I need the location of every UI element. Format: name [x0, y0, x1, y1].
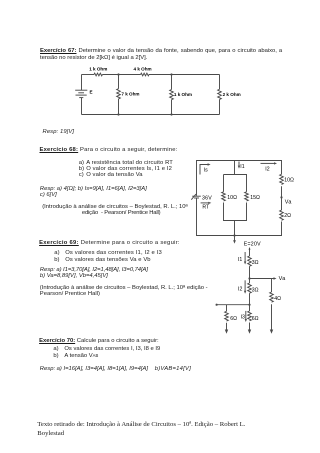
node A (junction dot, top of 7k branch) — [117, 73, 119, 75]
arrow I3 (current into bottom R 6 Ohm) — [241, 311, 247, 322]
svg-text:2 k Ohm: 2 k Ohm — [223, 92, 241, 97]
resistor 4 k Ohm (series, top rail) — [134, 66, 152, 76]
arrow Is (source current, top-left corner) — [200, 163, 211, 174]
svg-text:Is: Is — [204, 168, 208, 174]
node Va (tap with arrow and label) — [248, 276, 286, 282]
battery 36V (source, left rail) — [191, 194, 212, 201]
node Vb (junction dot and tap wire to the left) — [216, 304, 251, 306]
svg-text:3Ω: 3Ω — [252, 260, 259, 266]
wire: top rail from R 4k to right corner — [149, 74, 220, 76]
svg-text:10Ω: 10Ω — [284, 178, 294, 184]
svg-text:Va: Va — [285, 200, 293, 206]
wire: top rail between R 1k and node A — [102, 74, 140, 76]
node D (junction dot, bottom of middle 1k branch) — [170, 113, 172, 115]
svg-text:I2: I2 — [238, 287, 242, 293]
wire: bottom tap of box through bottom rail with return arrow — [233, 221, 236, 244]
resistor 2 k Ohm (right-most branch) — [218, 75, 241, 115]
resistor 15 Ohm (right element inside box) — [245, 192, 260, 201]
arrow I2 (current into middle R 3 Ohm) — [238, 280, 246, 294]
svg-text:4 k Ohm: 4 k Ohm — [134, 66, 152, 71]
resistor 3 Ohm (top series, main branch) — [248, 256, 259, 266]
wire: main branch between middle R 3 and node Vb — [249, 293, 251, 311]
svg-text:I3: I3 — [241, 314, 245, 320]
svg-text:10Ω: 10Ω — [227, 195, 237, 201]
svg-text:7 k Ohm: 7 k Ohm — [121, 92, 139, 97]
resistor 3 Ohm (middle series, main branch) — [248, 283, 259, 294]
svg-text:RT: RT — [202, 204, 210, 210]
svg-text:3Ω: 3Ω — [252, 288, 259, 294]
wire: left branch lower lead — [226, 323, 228, 331]
node C (junction dot, bottom of 7k branch) — [117, 113, 119, 115]
wire: top rail left segment (source to R 1k) — [82, 74, 95, 76]
node E=20V (supply point label) — [244, 241, 261, 247]
svg-text:E=20V: E=20V — [244, 241, 261, 247]
wire: bottom return rail — [82, 114, 220, 116]
svg-text:Va: Va — [279, 276, 287, 282]
wire: center tap from top rail into parallel box — [234, 161, 236, 175]
wire: right branch from Va down to R 4 — [271, 279, 273, 293]
svg-text:I1: I1 — [240, 164, 244, 170]
svg-text:36V: 36V — [202, 195, 212, 201]
resistor 6 Ohm (left branch) — [225, 311, 237, 322]
svg-text:15Ω: 15Ω — [250, 195, 260, 201]
arrow I1 (current into box) — [238, 162, 245, 171]
arrow I2 (current into right branch, top rail) — [261, 162, 278, 172]
node: bottom-center junction dot — [233, 234, 235, 236]
wire: outer loop (top, right, bottom, left rails) — [197, 161, 282, 236]
resistor 1 k Ohm (shunt branch at node B) — [170, 75, 192, 115]
ground (left branch, arrow symbol) — [225, 330, 228, 334]
wire: main branch lower lead — [249, 323, 251, 331]
wire: main branch between R 3 and node Va — [249, 266, 251, 283]
ground (main branch, arrow symbol) — [248, 330, 251, 334]
resistor 6 Ohm (bottom series, main branch) — [248, 311, 259, 322]
svg-text:1 k Ohm: 1 k Ohm — [174, 92, 192, 97]
wire: right branch lower lead — [271, 304, 273, 330]
svg-text:6Ω: 6Ω — [252, 316, 259, 322]
resistor 2 Ohm (right rail, lower) — [280, 210, 291, 220]
svg-text:6Ω: 6Ω — [230, 316, 237, 322]
resistor 10 Ohm (left element inside box) — [222, 192, 237, 201]
svg-text:2Ω: 2Ω — [284, 213, 291, 219]
svg-text:I1: I1 — [238, 257, 242, 263]
svg-text:I2: I2 — [265, 167, 269, 173]
box: parallel network enclosure — [224, 175, 247, 221]
node Va (junction dot on right rail) — [280, 196, 292, 205]
resistor 10 Ohm (right rail, upper) — [280, 174, 294, 184]
svg-text:E: E — [90, 90, 93, 95]
battery E (voltage source, left branch) — [75, 75, 92, 115]
wire: left branch upper lead — [226, 305, 228, 312]
wire: supply lead with up arrowhead — [249, 247, 251, 256]
resistor 4 Ohm (right branch) — [270, 292, 281, 302]
arrow RT (total resistance looking into source) — [201, 202, 212, 211]
ground (right branch, arrow symbol) — [270, 330, 273, 334]
arrow I1 (current into top R 3 Ohm) — [238, 252, 246, 265]
resistor 7 k Ohm (shunt branch at node A) — [117, 75, 140, 115]
svg-text:4Ω: 4Ω — [274, 296, 281, 302]
resistor 1 k Ohm (series, top rail) — [89, 66, 107, 76]
svg-text:1 k Ohm: 1 k Ohm — [89, 66, 107, 71]
node B (junction dot, top of middle 1k branch) — [170, 73, 172, 75]
